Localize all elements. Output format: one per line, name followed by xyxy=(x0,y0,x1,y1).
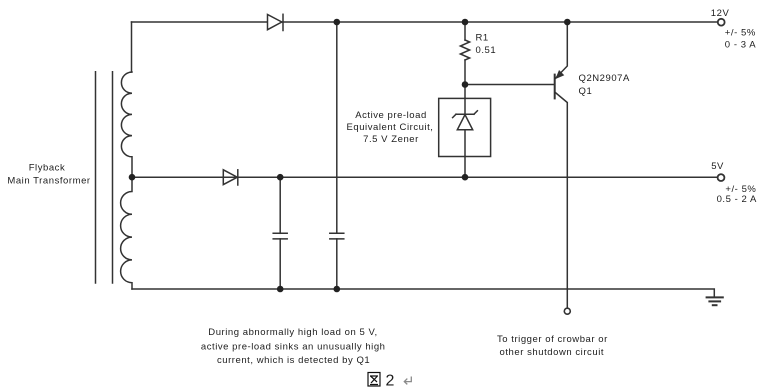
svg-text:Q2N2907A: Q2N2907A xyxy=(579,73,631,84)
wire left drop from top rail to winding xyxy=(131,22,133,72)
svg-text:other shutdown circuit: other shutdown circuit xyxy=(500,347,605,358)
pilcrow return mark xyxy=(404,377,411,385)
wire 5V rail xyxy=(132,176,718,178)
svg-text:Main Transformer: Main Transformer xyxy=(7,176,90,187)
capacitor C1 xyxy=(273,233,287,239)
resistor R1 xyxy=(460,40,469,60)
terminal 12V output xyxy=(718,19,725,26)
wire R1 bottom lead to node xyxy=(464,60,466,98)
svg-text:7.5 V Zener: 7.5 V Zener xyxy=(363,134,419,145)
label Flyback Main Transformer xyxy=(7,163,90,187)
svg-text:Equivalent Circuit,: Equivalent Circuit, xyxy=(346,122,433,133)
terminal crowbar trigger xyxy=(564,308,570,314)
svg-text:Flyback: Flyback xyxy=(29,163,66,174)
transformer T1 upper winding xyxy=(121,72,132,177)
label R1 value xyxy=(476,32,497,56)
zener diode Z1 xyxy=(453,98,478,156)
diode D1 (12V rectifier) xyxy=(268,14,284,30)
label crowbar trigger note xyxy=(497,334,608,358)
node junction dots xyxy=(129,19,571,293)
svg-text:0.5 - 2 A: 0.5 - 2 A xyxy=(717,194,757,205)
svg-text:0 - 3 A: 0 - 3 A xyxy=(725,39,756,50)
label 5V output xyxy=(711,161,757,205)
svg-text:Active pre-load: Active pre-load xyxy=(355,110,427,121)
capacitor C2 xyxy=(330,233,344,239)
wire R1 top lead xyxy=(464,22,466,40)
transformer T1 core xyxy=(96,72,113,283)
wire cap C1 top lead xyxy=(279,177,281,233)
wire cap C1 bottom lead xyxy=(279,239,281,289)
label 12V output xyxy=(711,8,756,50)
wire top 12V rail xyxy=(132,21,719,23)
svg-text:To trigger of crowbar or: To trigger of crowbar or xyxy=(497,334,608,345)
label figure 2 (CJK glyph drawn as paths) xyxy=(368,373,380,387)
label Q1 designator xyxy=(579,73,631,97)
wire zener bottom lead to 5V rail xyxy=(464,157,466,178)
wire cap C2 bottom lead xyxy=(336,239,338,289)
transistor Q1 xyxy=(555,22,568,308)
svg-text:active pre-load sinks an unusu: active pre-load sinks an unusually high xyxy=(201,342,386,353)
label active pre-load note xyxy=(346,110,433,145)
svg-text:12V: 12V xyxy=(711,8,730,19)
wire base of Q1 xyxy=(465,84,554,86)
svg-text:R1: R1 xyxy=(476,32,489,43)
svg-text:current, which is detected by: current, which is detected by Q1 xyxy=(217,355,370,366)
wire bottom return rail xyxy=(132,289,714,297)
svg-text:Q1: Q1 xyxy=(579,86,593,97)
label caption during high load xyxy=(201,327,386,366)
diode D2 (5V rectifier) xyxy=(223,170,238,185)
svg-text:+/- 5%: +/- 5% xyxy=(725,28,756,39)
svg-text:5V: 5V xyxy=(711,161,724,172)
ground symbol xyxy=(707,297,723,305)
svg-text:0.51: 0.51 xyxy=(476,45,497,56)
transformer T1 lower winding xyxy=(121,177,132,289)
svg-text:During abnormally high load on: During abnormally high load on 5 V, xyxy=(208,327,377,338)
terminal 5V output xyxy=(718,174,725,181)
wire cap C2 top lead from 12V rail xyxy=(336,22,338,233)
zener box outline xyxy=(439,98,491,156)
svg-text:2: 2 xyxy=(386,373,395,388)
